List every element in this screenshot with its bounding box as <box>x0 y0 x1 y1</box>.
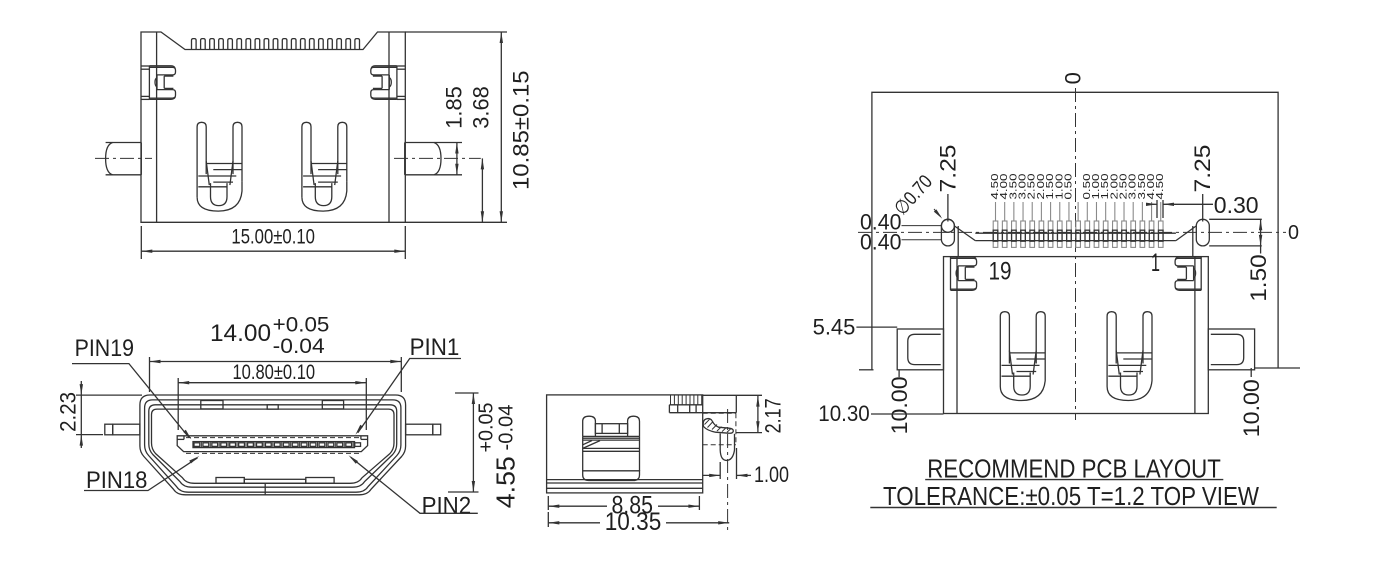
svg-text:PIN19: PIN19 <box>75 335 134 362</box>
view2 right board-lock pin <box>406 424 433 435</box>
dimension 0.30 <box>1156 200 1158 218</box>
view2 tongue left end step <box>183 436 185 440</box>
view1 right pin centerline <box>394 157 481 159</box>
view2 top center bump <box>267 405 278 409</box>
view4 connector body outline <box>944 257 1209 414</box>
view3 body outline <box>547 395 703 493</box>
view1 right contact spring <box>302 122 311 197</box>
view1 shell body outline <box>141 32 405 222</box>
dimension 10.85±0.15 (view1 height) <box>405 31 507 33</box>
svg-text:0: 0 <box>1288 222 1299 244</box>
svg-text:2.23: 2.23 <box>56 392 81 432</box>
view1 left pin centerline <box>95 157 152 159</box>
view2 contour 2 <box>145 400 401 492</box>
view3 comb lower cells <box>669 412 736 414</box>
view4 19 solder pads <box>993 221 998 247</box>
svg-text:5.45: 5.45 <box>813 315 856 340</box>
view4 label leader lines <box>995 202 997 221</box>
svg-text:0.30: 0.30 <box>1214 192 1259 218</box>
svg-text:19: 19 <box>989 258 1012 286</box>
dimension 2.17 (view3) <box>703 394 762 396</box>
svg-text:10.85±0.15: 10.85±0.15 <box>508 70 533 190</box>
svg-text:14.00: 14.00 <box>210 320 271 347</box>
view1 left shield latch <box>149 67 175 75</box>
svg-text:+0.05: +0.05 <box>476 403 498 453</box>
view3 latch detail <box>583 416 596 436</box>
view2 bottom dimple right <box>306 478 334 484</box>
svg-text:0: 0 <box>1060 72 1085 84</box>
svg-text:3.68: 3.68 <box>469 86 494 129</box>
view2 left board-lock pin <box>105 424 113 435</box>
svg-text:1.50: 1.50 <box>1246 254 1271 302</box>
view3 lower line 3 <box>547 487 703 489</box>
view3 rear comb <box>669 404 702 406</box>
view2 bottom center lip <box>244 479 305 483</box>
svg-text:4.50: 4.50 <box>1155 173 1166 199</box>
view3 lower line 2 <box>547 482 703 484</box>
view4 right mounting slot <box>1196 219 1209 246</box>
view4 left latch <box>951 258 977 266</box>
view2 cavity contour <box>152 409 395 483</box>
dimension 2.23 (view2) <box>76 394 142 396</box>
view4 left side pad <box>897 329 943 370</box>
dimension 10.80±0.10 (view2) <box>177 378 179 430</box>
dimension 3.68 (view1 pin center to bottom) <box>481 158 483 222</box>
view2 top dimple right <box>322 401 343 409</box>
svg-text:-0.04: -0.04 <box>273 334 325 358</box>
view2 tongue outline <box>177 436 367 452</box>
view4 left mounting slot <box>941 219 954 246</box>
svg-text:1.85: 1.85 <box>441 86 466 129</box>
dimension 8.85 (view3) <box>547 496 549 510</box>
view4 right contact spring <box>1107 312 1116 387</box>
view1 left contact spring <box>197 122 206 197</box>
view2 bottom dimple left <box>216 478 244 484</box>
svg-text:10.80±0.10: 10.80±0.10 <box>232 361 315 384</box>
svg-text:-0.04: -0.04 <box>496 405 518 451</box>
dimension 10.35 (view3) <box>547 512 549 527</box>
svg-text:10.00: 10.00 <box>1239 379 1264 437</box>
svg-text:0.40: 0.40 <box>860 230 902 255</box>
dimension 1.50 <box>1209 218 1262 220</box>
view4 shell rear edge <box>975 232 1176 234</box>
svg-text:10.00: 10.00 <box>887 376 912 434</box>
svg-text:TOLERANCE:±0.05 T=1.2 TOP VIEW: TOLERANCE:±0.05 T=1.2 TOP VIEW <box>883 481 1259 511</box>
view3 solder tail hook <box>703 419 733 434</box>
view2 top dimple left <box>201 401 223 409</box>
view3 solder pin <box>719 433 721 450</box>
svg-text:15.00±0.10: 15.00±0.10 <box>231 226 315 249</box>
view3 lower line 1 <box>547 479 703 481</box>
view1 right board-lock pin <box>404 143 406 175</box>
svg-text:10.30: 10.30 <box>818 401 870 426</box>
view1 left inner wall <box>156 32 158 222</box>
dimension 1.00 (view3) <box>719 462 721 479</box>
view2 bottom center seam <box>264 483 266 495</box>
view1 right inner wall <box>388 32 390 222</box>
view4 vertical centerline <box>1075 88 1077 420</box>
svg-text:1: 1 <box>1151 249 1160 277</box>
svg-text:PIN1: PIN1 <box>410 334 460 361</box>
view4 left contact spring <box>1000 312 1009 387</box>
svg-text:PIN2: PIN2 <box>422 493 472 520</box>
view4 right latch <box>1175 258 1201 266</box>
svg-text:10.35: 10.35 <box>605 508 662 536</box>
view3 pin centerline <box>727 409 729 531</box>
view2 contact row (19 pins) <box>194 443 200 447</box>
view3 rear top extension <box>735 395 737 413</box>
svg-text:4.55: 4.55 <box>490 456 520 508</box>
dimension 14.00 +0.05/-0.04 (view2) <box>149 357 151 392</box>
svg-text:7.25: 7.25 <box>1190 145 1215 193</box>
dimension 4.55 +0.05/-0.04 (view2) <box>455 392 479 394</box>
svg-text:0.50: 0.50 <box>1063 173 1074 199</box>
view1 right shield latch <box>371 67 397 75</box>
view2 contact band <box>193 442 355 448</box>
view2 contour 3 <box>149 405 397 487</box>
view3 hidden edges (dashed) <box>703 412 736 414</box>
dimension 15.00±0.10 (view1 width) <box>140 226 142 259</box>
view4 horizontal centerline <box>858 231 1286 233</box>
dimension 1.85 (view1 pin height) <box>441 142 462 144</box>
view2 tongue right end step <box>360 436 362 440</box>
view4 19 pin leads <box>993 230 998 241</box>
view1 contact teeth row <box>192 39 197 50</box>
svg-text:7.25: 7.25 <box>936 145 961 193</box>
svg-text:2.17: 2.17 <box>761 398 786 433</box>
view1 left board-lock pin <box>140 143 142 175</box>
svg-text:1.00: 1.00 <box>754 462 789 487</box>
view4 board outline <box>872 92 1278 370</box>
svg-text:+0.05: +0.05 <box>273 312 330 336</box>
view4 right side pad <box>1208 329 1254 370</box>
view2 outer contour <box>140 395 406 495</box>
